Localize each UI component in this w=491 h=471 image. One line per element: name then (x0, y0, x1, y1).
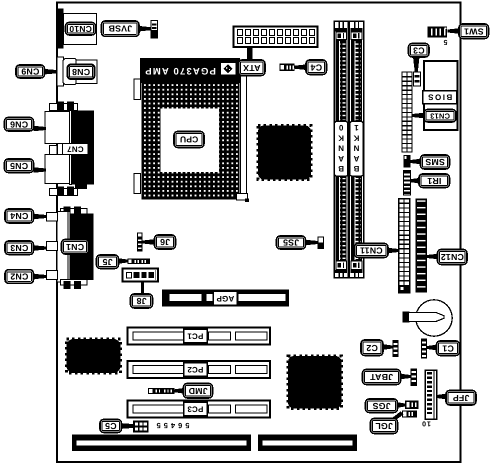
label CN3 (5, 241, 34, 255)
CPU socket clip lower (134, 174, 141, 194)
svg-text:PGA370 AMP: PGA370 AMP (144, 65, 216, 76)
wire pointer J6 (143, 239, 155, 245)
connector CN1 jack tab (CN3) (47, 242, 58, 251)
svg-text:CN4: CN4 (10, 211, 28, 221)
wire pointer SMS (411, 159, 421, 165)
IC chip U2 (67, 339, 121, 373)
slot ISA right segment (258, 435, 357, 452)
wire pointer IR1 (411, 178, 420, 184)
connector CN7 lower port (CN5) (45, 155, 70, 184)
svg-text:C5: C5 (105, 421, 117, 431)
header IR1 (404, 171, 411, 196)
svg-text:JGS: JGS (372, 401, 390, 411)
label SMS (421, 155, 450, 169)
label JGL (371, 419, 398, 434)
wire pointer JBAT (401, 374, 411, 380)
connector CN7 divider (70, 111, 72, 185)
label C2 (361, 340, 383, 356)
connector ATX power header (234, 27, 318, 48)
svg-text:CN7: CN7 (67, 145, 84, 154)
svg-text:SMS: SMS (425, 157, 445, 167)
jumper C3 (414, 72, 421, 86)
svg-text:ATX: ATX (243, 63, 261, 73)
capacitor block C5 (133, 421, 149, 433)
label C5 (100, 420, 122, 433)
svg-text:IR1: IR1 (427, 176, 441, 186)
connector CN8 edge part (57, 57, 64, 86)
slot PC2 (128, 361, 271, 378)
capacitor C1 (421, 339, 427, 359)
wire pointer J5 (119, 258, 128, 264)
svg-text:JS5: JS5 (283, 238, 299, 248)
wire pointer CN4 (34, 214, 47, 220)
CPU socket lever channel (241, 76, 247, 199)
CPU socket clip upper (134, 79, 141, 100)
memory slot DIMM2 (349, 21, 363, 278)
svg-text:CN13: CN13 (430, 111, 450, 120)
svg-text:CN2: CN2 (10, 272, 28, 282)
svg-text:CN1: CN1 (66, 242, 84, 252)
label JS5 (277, 236, 306, 249)
svg-text:0: 0 (338, 123, 343, 132)
svg-text:A: A (353, 154, 359, 163)
capacitor C2 (393, 340, 399, 357)
header CN12 (IDE) (416, 199, 428, 293)
wire pointer JGL (390, 412, 404, 422)
connector CN8 body (76, 60, 97, 84)
label IR1 (419, 174, 450, 188)
svg-text:10: 10 (421, 419, 431, 426)
label AGP (214, 292, 238, 306)
label ATX (239, 60, 266, 76)
wire pointer CN11 (388, 248, 399, 254)
svg-text:5: 5 (443, 38, 447, 45)
wire pointer JMD (175, 388, 184, 394)
svg-text:JMD: JMD (188, 386, 207, 396)
connector CN1 top bracket (61, 207, 88, 215)
label CPU (174, 132, 204, 148)
wire pointer C2 (383, 344, 393, 350)
label CN4 (5, 209, 34, 223)
IC chip U1 (north bridge) (258, 126, 311, 180)
jumper JMD strip (148, 388, 175, 394)
wire pointer JS5 (306, 240, 319, 246)
label PC1 (184, 329, 208, 343)
label C3 (409, 44, 430, 58)
connector CN1 white body (57, 212, 69, 283)
label J5 (97, 255, 119, 269)
svg-text:JVSB: JVSB (108, 24, 132, 34)
CPU socket lever foot nub (245, 199, 249, 203)
connector CN7 notch (50, 146, 58, 155)
header JFP (425, 370, 437, 419)
label J8 (131, 294, 153, 308)
label CN7 (63, 144, 89, 155)
svg-text:SW1: SW1 (464, 26, 484, 36)
svg-text:JBAT: JBAT (370, 372, 394, 382)
memory slot DIMM1 (334, 21, 348, 278)
CPU socket bar icon (221, 63, 237, 76)
svg-text:CPU: CPU (180, 135, 199, 145)
CPU socket top bar PGA370 AMP (141, 59, 240, 83)
slot PC3 (128, 401, 271, 418)
svg-text:C2: C2 (366, 343, 378, 353)
connector CN1 bottom bracket (61, 280, 88, 290)
label CN12 (438, 250, 468, 265)
wire pointer C5 (122, 423, 134, 429)
svg-text:C3: C3 (413, 45, 425, 55)
wire pointer JGS (398, 402, 406, 408)
svg-text:C1: C1 (442, 343, 454, 353)
svg-text:CN9: CN9 (21, 67, 39, 77)
label J6 (155, 235, 176, 249)
label CN6 (5, 118, 34, 132)
svg-text:CN10: CN10 (69, 24, 92, 34)
svg-text:BIOS: BIOS (427, 93, 453, 102)
battery BT1 (403, 300, 453, 336)
svg-text:PC2: PC2 (187, 365, 204, 374)
svg-text:J6: J6 (160, 237, 170, 247)
label BANK 1 on DIMM2 (350, 121, 364, 176)
label PC3 (184, 402, 208, 416)
jumper JBAT (411, 369, 418, 387)
wire pointer CN13 (412, 113, 424, 119)
wire pointer CN6 (34, 126, 47, 132)
connector CN7 black body (72, 111, 95, 185)
header CN13 (402, 72, 412, 152)
jumper JGL (402, 411, 417, 418)
slot AGP (162, 290, 289, 307)
connector CN7 upper port (CN6) (45, 112, 70, 144)
label PC2 (184, 363, 208, 377)
jumper JGS (405, 401, 419, 410)
svg-text:K: K (353, 133, 359, 142)
label C1 (437, 341, 460, 356)
label JFP (446, 391, 476, 406)
component SMS (404, 155, 411, 168)
switch SW1 (428, 27, 448, 38)
label JBAT (363, 370, 401, 385)
svg-text:CN8: CN8 (72, 67, 90, 77)
svg-text:JGL: JGL (375, 421, 393, 431)
label CN10 (66, 23, 96, 36)
wire pointer JFP (437, 394, 447, 400)
slot PC1 (128, 328, 271, 345)
jumper J5 (128, 259, 151, 265)
svg-text:CN12: CN12 (441, 252, 464, 262)
svg-text:PC1: PC1 (187, 331, 204, 340)
label CN1 (62, 240, 89, 255)
wire pointer SW1 (448, 28, 460, 34)
svg-text:B: B (353, 164, 359, 173)
capacitor C4 jumper (280, 64, 295, 72)
wire pointer CN12 (427, 254, 438, 260)
wire pointer JVSB (139, 26, 151, 32)
svg-text:N: N (338, 144, 344, 153)
label CN8 (68, 65, 95, 80)
label JVSB (102, 21, 140, 36)
svg-text:J8: J8 (136, 296, 146, 306)
jumper block J8 (123, 269, 159, 282)
label CN2 (5, 270, 34, 284)
svg-text:1: 1 (354, 123, 359, 132)
svg-text:A: A (338, 154, 344, 163)
wire pointer CN5 (34, 167, 47, 173)
connector CN7 bottom bracket (50, 187, 78, 196)
wire pointer C1 (427, 345, 437, 351)
svg-text:56455: 56455 (154, 421, 190, 430)
label CN11 (355, 244, 389, 258)
svg-text:C4: C4 (310, 62, 322, 72)
connector CN1 divider (68, 212, 70, 283)
connector CN1 black body (71, 214, 94, 281)
connector CN1 jack tab (CN4) (47, 213, 58, 222)
IC BIOS chip body (424, 61, 458, 130)
wire pointer CN9 (45, 69, 58, 75)
svg-text:CN11: CN11 (360, 246, 383, 256)
jumper JS5 (318, 237, 324, 249)
svg-text:B: B (338, 164, 344, 173)
wire pointer C4 (295, 64, 307, 70)
wire pointer CN3 (34, 245, 47, 251)
svg-text:JFP: JFP (453, 393, 470, 403)
label JGS (366, 399, 398, 413)
connector CN7 black body step (75, 185, 87, 190)
svg-text:CN6: CN6 (10, 119, 28, 129)
connector CN8 middle part (63, 59, 77, 85)
wire pointer ATX (247, 48, 252, 61)
CPU socket pin grid (142, 83, 239, 200)
svg-text:AGP: AGP (216, 294, 234, 303)
wire pointer J8 (141, 282, 144, 296)
label CN5 (5, 159, 34, 173)
connector CN1 jack tab (CN2) (47, 271, 58, 280)
label BANK 0 on DIMM1 (334, 121, 348, 176)
connector CN10 bracket bar (58, 9, 64, 49)
svg-text:CN5: CN5 (10, 161, 28, 171)
jumper JVSB (151, 21, 158, 39)
header CN11 (floppy) (399, 199, 410, 293)
connector CN7 top bracket (50, 102, 78, 111)
svg-text:K: K (338, 133, 344, 142)
label BIOS (423, 91, 457, 104)
CPU socket center hole (161, 109, 220, 173)
label SW1 (459, 24, 489, 39)
svg-text:J5: J5 (102, 257, 112, 267)
CPU socket lever foot (237, 194, 248, 201)
label JMD (184, 384, 213, 399)
slot ISA left segment (72, 435, 251, 452)
wire pointer C3 (413, 57, 420, 72)
svg-text:CN3: CN3 (10, 243, 28, 253)
wire pointer CN2 (34, 274, 47, 280)
svg-text:N: N (353, 144, 359, 153)
label C4 (306, 60, 327, 75)
svg-text:PC3: PC3 (187, 404, 204, 413)
label CN9 (16, 65, 45, 78)
label CN13 (424, 110, 456, 123)
jumper J6 (137, 233, 143, 252)
connector CN10 body (64, 14, 97, 45)
IC chip U3 (south bridge) (288, 356, 342, 409)
